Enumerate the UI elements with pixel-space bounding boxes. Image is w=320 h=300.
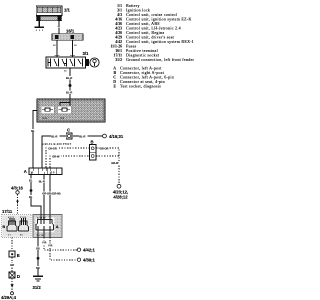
wire A down left BL bbox=[31, 175, 41, 215]
terminal to 4/16,31 bbox=[103, 134, 107, 138]
svg-text:4 3 2 1: 4 3 2 1 bbox=[8, 217, 15, 219]
svg-text:16/1: 16/1 bbox=[115, 49, 122, 53]
svg-text:BL-R: BL-R bbox=[51, 134, 57, 138]
wire label BL-R bbox=[51, 134, 59, 138]
pin labels above ignition bbox=[55, 54, 60, 56]
connector bracket unit A bbox=[36, 220, 54, 231]
svg-text:4/28;12: 4/28;12 bbox=[113, 194, 128, 199]
svg-text:4/29: 4/29 bbox=[115, 36, 122, 40]
svg-text:4/39;1: 4/39;1 bbox=[83, 258, 96, 263]
dashed wire unit B to E bbox=[11, 238, 13, 252]
wire label SB lower bbox=[36, 266, 41, 270]
svg-text:GR-W: GR-W bbox=[111, 161, 119, 165]
svg-text:A: A bbox=[56, 224, 59, 229]
battery 1/1 bbox=[36, 6, 62, 21]
svg-text:B: B bbox=[91, 140, 94, 145]
svg-text:A2 A1 B3: A2 A1 B3 bbox=[37, 217, 46, 220]
connector D bbox=[9, 272, 15, 278]
svg-text:17/11: 17/11 bbox=[2, 209, 13, 214]
wire A down BL-R bbox=[43, 175, 45, 215]
svg-text:BL: BL bbox=[29, 179, 33, 183]
dashed wire E to D bbox=[11, 257, 13, 272]
svg-text:11/1-26: 11/1-26 bbox=[110, 45, 122, 49]
wire battery to 16/1 bbox=[58, 20, 60, 26]
wire 16/1 to ignition pin30 bbox=[56, 40, 58, 57]
svg-text:1/1: 1/1 bbox=[64, 8, 70, 13]
dashed wire to 4/42;1 bbox=[44, 238, 77, 251]
svg-text:A: A bbox=[113, 67, 116, 71]
svg-text:BL-R: BL-R bbox=[66, 76, 72, 80]
svg-text:SB: SB bbox=[36, 266, 40, 270]
svg-text:4/16: 4/16 bbox=[115, 18, 122, 22]
junction bbox=[69, 84, 72, 87]
svg-text:Y-R: Y-R bbox=[42, 241, 46, 245]
junction on BL wire bbox=[30, 189, 33, 192]
wire fusebox left to A bbox=[33, 111, 37, 169]
svg-text:11/25: 11/25 bbox=[42, 118, 48, 120]
legend component list bbox=[110, 3, 194, 90]
battery terminals bbox=[37, 16, 41, 20]
wire stubs through unit A box bbox=[38, 215, 50, 238]
connector brackets unit B bbox=[7, 221, 29, 231]
svg-text:4/16;31: 4/16;31 bbox=[109, 134, 124, 139]
svg-text:17/11: 17/11 bbox=[114, 54, 123, 58]
wire A down GR bbox=[49, 175, 51, 215]
svg-text:C: C bbox=[67, 128, 70, 133]
dashed wire GR-OR from B bbox=[96, 148, 119, 185]
wire C-branch vertical bbox=[42, 136, 66, 168]
junction on SB wire bbox=[37, 257, 40, 260]
svg-text:4/26: 4/26 bbox=[115, 31, 122, 35]
svg-text:31/2: 31/2 bbox=[33, 285, 42, 290]
unit B box bbox=[2, 215, 31, 238]
svg-text:16/1: 16/1 bbox=[66, 29, 75, 34]
svg-text:E: E bbox=[17, 253, 20, 258]
svg-text:15 P: 15 P bbox=[50, 171, 55, 174]
svg-text:4/36: 4/36 bbox=[115, 22, 122, 26]
unit A box bbox=[33, 215, 62, 238]
svg-text:GR-GR (GR-W): GR-GR (GR-W) bbox=[42, 192, 60, 196]
svg-text:4/29A;4: 4/29A;4 bbox=[1, 295, 17, 300]
svg-text:SB: SB bbox=[36, 247, 40, 251]
wire C to terminal bbox=[73, 135, 103, 137]
wire label BL-R bbox=[66, 91, 74, 95]
svg-text:9.90-FL B-230 FT/GT: 9.90-FL B-230 FT/GT bbox=[42, 142, 72, 146]
svg-text:BL-R: BL-R bbox=[39, 180, 45, 184]
dashed wire to 4/39;1 bbox=[50, 238, 77, 261]
fuse 11/25 bbox=[42, 108, 53, 111]
svg-text:CH-GR: CH-GR bbox=[48, 146, 57, 150]
terminal to 4/23;12 4/28;12 bbox=[117, 184, 121, 188]
svg-text:4/42;1: 4/42;1 bbox=[83, 248, 96, 253]
positive terminal 16/1 bbox=[52, 34, 83, 40]
svg-text:3/1: 3/1 bbox=[117, 9, 122, 13]
svg-text:GR-OR: GR-OR bbox=[100, 146, 109, 150]
svg-text:GR-W: GR-W bbox=[52, 154, 60, 158]
dashed wire D to 4/29A;4 bbox=[11, 278, 13, 292]
svg-text:BL-R: BL-R bbox=[79, 134, 85, 138]
svg-text:B: B bbox=[2, 224, 5, 229]
ground 31/2 bbox=[33, 276, 43, 281]
svg-text:8 7 6 5: 8 7 6 5 bbox=[20, 217, 27, 219]
ground (battery negative) bbox=[35, 20, 44, 31]
svg-text:Y-R: Y-R bbox=[48, 244, 52, 248]
wire 17/11-A to ground, SB bbox=[37, 238, 39, 277]
svg-text:3/1: 3/1 bbox=[83, 51, 89, 56]
fuse box 11/1-26 bbox=[37, 99, 105, 122]
wire ignition to fusebox bbox=[69, 68, 71, 99]
dashed wire CH-GR to B bbox=[46, 148, 90, 168]
svg-text:BL-R: BL-R bbox=[66, 91, 72, 95]
svg-text:GR: GR bbox=[10, 263, 14, 267]
svg-text:1/1: 1/1 bbox=[117, 4, 122, 8]
wire 16/1 to ignition bbox=[72, 40, 74, 57]
svg-text:4/3: 4/3 bbox=[117, 13, 122, 17]
svg-text:C: C bbox=[113, 76, 116, 80]
wire label BL lower bbox=[29, 195, 33, 199]
test socket E bbox=[9, 251, 15, 257]
svg-text:31/2: 31/2 bbox=[115, 58, 122, 62]
svg-text:14 7 20: 14 7 20 bbox=[37, 235, 45, 237]
wire label BL-R bbox=[66, 76, 74, 80]
svg-text:BL: BL bbox=[29, 195, 33, 199]
svg-text:D: D bbox=[113, 80, 116, 84]
dashed wire from B lower bbox=[96, 155, 119, 157]
svg-text:4/3;16: 4/3;16 bbox=[11, 185, 24, 190]
key symbol bbox=[90, 58, 99, 67]
svg-text:A: A bbox=[24, 169, 27, 174]
dashed wire GR-W to B bbox=[50, 156, 90, 168]
fuse 11/5 bbox=[59, 108, 71, 111]
svg-text:4/42: 4/42 bbox=[115, 40, 122, 44]
ignition lock 3/1 bbox=[46, 57, 99, 68]
feed arch inside fuse box bbox=[60, 99, 70, 106]
svg-text:4/23: 4/23 bbox=[115, 27, 122, 31]
svg-text:BL: BL bbox=[31, 129, 35, 133]
